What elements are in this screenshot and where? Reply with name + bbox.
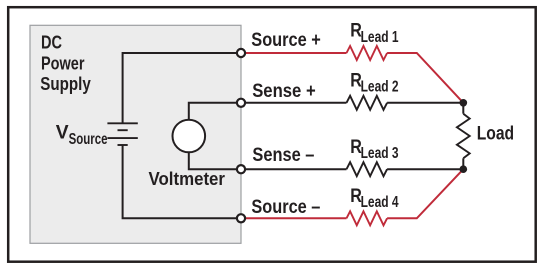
wire R_Lead 2 to load top node (387, 102, 463, 104)
resistor R_Lead 4 (347, 211, 388, 225)
terminal Source - (open circle) (237, 214, 245, 222)
voltmeter circle (173, 120, 206, 153)
battery V_Source (107, 123, 137, 145)
wire R_Lead 1 to load top node (387, 53, 463, 103)
svg-text:Supply: Supply (40, 74, 91, 94)
svg-text:Sense –: Sense – (252, 145, 314, 166)
DC power supply enclosure box (30, 25, 241, 243)
svg-text:Voltmeter: Voltmeter (149, 168, 226, 189)
wire R_Lead 3 to load bottom node (387, 168, 463, 170)
wire battery top to Source + terminal (123, 53, 241, 123)
resistor R_Lead 3 (347, 162, 388, 176)
terminal Source + (open circle) (237, 49, 245, 57)
terminal Sense - (open circle) (237, 165, 245, 173)
resistor R_Lead 1 (347, 46, 388, 60)
wire R_Lead 4 diagonal to load bottom node (387, 169, 463, 218)
svg-text:Source +: Source + (251, 30, 320, 51)
svg-text:Load: Load (477, 123, 514, 144)
svg-text:Lead 1: Lead 1 (361, 29, 399, 46)
wire load bottom (462, 158, 464, 169)
wire voltmeter bottom to Sense - terminal (189, 153, 241, 169)
svg-text:Power: Power (41, 53, 85, 73)
node load top (junction dot) (459, 99, 467, 107)
resistor Load (457, 114, 470, 159)
svg-text:Source –: Source – (251, 197, 320, 218)
wire Sense - lead (245, 168, 347, 170)
svg-text:Sense +: Sense + (252, 81, 316, 102)
svg-text:Lead 2: Lead 2 (361, 79, 399, 96)
resistor R_Lead 2 (347, 96, 388, 110)
node load bottom (junction dot) (459, 165, 467, 173)
wire Source - lead (red) (245, 217, 347, 219)
svg-text:Lead 4: Lead 4 (361, 194, 399, 211)
terminal Sense + (open circle) (237, 99, 245, 107)
wire load top (462, 103, 464, 114)
svg-text:DC: DC (41, 32, 62, 52)
wire voltmeter top to Sense + terminal (189, 103, 241, 119)
wire Sense + lead (245, 102, 347, 104)
wire Source + lead (red) with diagonal to load top node (245, 52, 347, 54)
svg-text:Lead 3: Lead 3 (361, 145, 399, 162)
wire battery bottom to Source - terminal (123, 145, 241, 218)
